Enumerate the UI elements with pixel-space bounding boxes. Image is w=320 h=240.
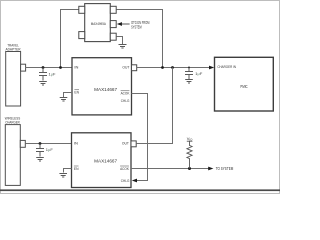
ground under U3 [119, 45, 127, 49]
svg-text:CHARGER: CHARGER [5, 119, 20, 124]
op-amp U1 MAX14667 body [72, 58, 132, 115]
node: U3 right wire junction [161, 66, 164, 69]
border frame [1, 1, 280, 194]
bottom rule line [0, 189, 280, 191]
capacitor C3 1uF [185, 68, 193, 80]
svg-text:IN: IN [74, 142, 78, 146]
capacitor C1 1uF [39, 68, 47, 81]
U3 pin 4 [110, 21, 116, 28]
node: U3 left wire junction [59, 66, 62, 69]
svg-text:CHLG: CHLG [121, 179, 130, 183]
wire: U2 ACOK to system [131, 168, 209, 170]
wire: U3 pin3 to ground [117, 37, 123, 45]
U3 pin 3 [110, 33, 116, 40]
travel adapter box [6, 52, 21, 107]
U3 pin 1 [79, 6, 85, 13]
arrow TO SYSTEM [208, 167, 213, 171]
U3 pin 5 [110, 6, 116, 13]
transistor U3 body [85, 4, 111, 42]
ground under C2 [36, 158, 44, 162]
wire: U1 ACOK down to U2 CHLG [132, 94, 148, 181]
svg-text:TO SYSTEM: TO SYSTEM [216, 166, 234, 171]
wire: U1 EN to ground [64, 93, 73, 98]
arrow into U2 CHLG [132, 179, 137, 183]
svg-text:OUT: OUT [122, 142, 130, 146]
svg-text:PMIC: PMIC [240, 84, 247, 89]
svg-text:1μF: 1μF [195, 71, 203, 76]
wire: charger to U2 IN [25, 143, 71, 145]
wire: U3 pin5 to OUT node [117, 10, 163, 68]
svg-text:CHLG: CHLG [121, 99, 130, 103]
op-amp U2 MAX14667 body [72, 133, 132, 188]
ground at U2 EN [59, 174, 67, 178]
node: pull-up tap [188, 167, 191, 170]
svg-text:ACOK: ACOK [121, 92, 130, 96]
svg-text:SYSTEM: SYSTEM [131, 25, 142, 30]
U2 OUT pin box [131, 141, 136, 147]
node: U2 OUT riser junction [171, 66, 174, 69]
capacitor C2 1uF [36, 144, 44, 157]
node: cap C2 tap [39, 142, 42, 145]
U3 pin 2 [79, 32, 85, 39]
OTG EN FROM SYSTEM arrow [117, 22, 122, 26]
wire: U3 pin1 to IN node [61, 10, 79, 68]
PMIC box [215, 57, 274, 111]
U1 OUT pin box [132, 65, 137, 71]
ground under C1 [39, 82, 47, 86]
wire: adapter to U1 IN [26, 67, 72, 69]
svg-text:VIO: VIO [187, 136, 193, 142]
node: cap C1 tap [42, 66, 45, 69]
ground under C3 [185, 80, 193, 84]
wire: U2 OUT riser to OUT node [136, 68, 172, 144]
svg-text:1μF: 1μF [46, 147, 54, 152]
arrow into PMIC CHARGER IN [209, 66, 214, 70]
resistor R1 pull-up [187, 141, 192, 168]
svg-text:MAX14667: MAX14667 [94, 158, 117, 163]
svg-text:CHARGER IN: CHARGER IN [217, 65, 236, 69]
node: cap C3 tap [188, 67, 190, 69]
svg-text:IN: IN [74, 66, 78, 70]
wireless charger output pin [20, 140, 25, 147]
svg-text:OUT: OUT [122, 66, 130, 70]
travel adapter output pin [21, 64, 26, 71]
svg-text:EN: EN [74, 167, 79, 171]
svg-text:1μF: 1μF [49, 72, 57, 77]
ground at U1 EN [60, 98, 68, 102]
wireless charger box [5, 125, 20, 186]
svg-text:MAX4995A: MAX4995A [91, 21, 106, 26]
svg-text:ADAPTER: ADAPTER [6, 47, 21, 52]
svg-text:ACOK: ACOK [120, 167, 129, 171]
wire: U2 EN to ground [64, 169, 72, 173]
svg-text:EN: EN [74, 91, 79, 95]
svg-text:MAX14667: MAX14667 [94, 87, 117, 92]
wire: U1 OUT to PMIC [137, 67, 210, 69]
